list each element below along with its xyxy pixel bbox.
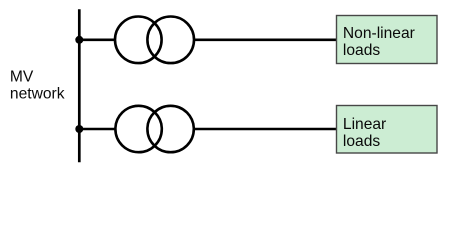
svg-text:MV: MV (10, 69, 34, 86)
wire: T1 to Non-linear loads block (193, 38, 337, 41)
wire: T2 to Linear loads block (193, 128, 337, 131)
MV bus (vertical busbar) (78, 9, 81, 162)
svg-text:Linear: Linear (343, 116, 386, 133)
node: top feeder junction (75, 36, 83, 44)
node: bottom feeder junction (75, 125, 83, 133)
svg-text:loads: loads (343, 42, 380, 59)
svg-text:network: network (10, 86, 65, 103)
load block: Non-linear loads (337, 16, 438, 64)
load block: Linear loads (337, 106, 438, 154)
svg-text:Non-linear: Non-linear (343, 25, 415, 42)
wire: bus to transformer T1 (79, 38, 116, 41)
transformer T1 (two-winding) (115, 17, 194, 64)
wire: bus to transformer T2 (79, 128, 116, 131)
svg-text:loads: loads (343, 133, 380, 150)
transformer T2 (two-winding) (115, 106, 193, 152)
label: MV network (10, 69, 65, 103)
